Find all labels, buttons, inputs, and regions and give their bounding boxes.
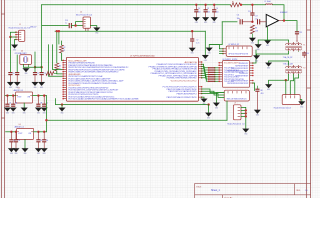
MCU left pin 5 (63, 68, 66, 70)
capacitor C7 on VBUS (190, 31, 199, 48)
wire to C16 (42, 24, 68, 27)
resistor RN6 (208, 78, 216, 80)
ground CA (10, 108, 17, 115)
capacitor C11 series (237, 15, 253, 25)
resistor RN4 (208, 74, 216, 76)
svg-text:PB3/PDO/MISO/PCINT3/PB3/PDO/MI: PB3/PDO/MISO/PCINT3/PB3/PDO/MISO/PCINT3/… (68, 72, 118, 74)
MCU left pin 9 (63, 77, 66, 79)
wire U4 in/out (6, 130, 17, 133)
wire res horiz (46, 71, 54, 75)
wire +5V top rail (42, 3, 231, 6)
capacitor C1 (33, 73, 39, 82)
svg-text:1.0: 1.0 (305, 190, 308, 192)
wire MCU to RN6 (202, 76, 209, 80)
junction VBUS (191, 30, 193, 32)
wire J5 to gnd b (216, 93, 224, 103)
junction gnd rail (207, 103, 209, 105)
capacitor C4 (194, 4, 200, 18)
ground col (59, 108, 66, 115)
U6 right pin 7 (250, 79, 253, 81)
svg-text:VCC33/VCC33/VCC: VCC33/VCC33/VCC (224, 63, 240, 65)
capacitor C2 (40, 73, 46, 82)
svg-text:PE2/HWB_PWR/PE2/HWB_PWR/PE2/: PE2/HWB_PWR/PE2/HWB_PWR/PE2/ (167, 78, 197, 80)
ground T2 bottom (265, 84, 272, 91)
svg-text:VCC/VCC/VCC/VCC/VCC/VCC/: VCC/VCC/VCC/VCC/VCC/VCC/ (171, 80, 197, 82)
MCU right pin 11 (198, 88, 201, 90)
wire RN3 to U6 (215, 71, 220, 74)
wire 5V distribution (46, 119, 227, 122)
ground U3 tab (21, 108, 28, 115)
wire U7 gnd leg (209, 45, 219, 49)
MCU right pin 7 (198, 74, 201, 76)
resistor R3 (55, 63, 59, 71)
wire MCU to RN3 (202, 69, 209, 73)
ground T2 left (265, 63, 272, 70)
wire audio gnd stub (208, 43, 211, 46)
ground at J1 (11, 45, 18, 52)
MCU right pin 8 (198, 77, 201, 79)
wire VBUS end down (204, 31, 207, 55)
ground CG (41, 148, 48, 155)
ground under C7 (189, 48, 196, 55)
junction rail R (240, 4, 242, 6)
wire RN7 to U6 (215, 80, 220, 83)
wire MCU to RN1 (202, 64, 209, 68)
wire xtal to pin a (35, 66, 42, 69)
MCU left pin 15 (63, 91, 66, 93)
resistor RN1 (208, 67, 216, 69)
capacitor CE at U4 (14, 131, 20, 149)
wire MCU to RN4 (202, 71, 209, 75)
regulator U4 (15, 124, 34, 139)
wire rail right of R (241, 3, 266, 6)
title block (195, 184, 311, 200)
capacitor C5 (204, 4, 210, 18)
wire U3 in/out (5, 94, 15, 97)
junction J1 (9, 36, 11, 38)
wire J4 shield to ground (91, 26, 97, 28)
ground opamp (264, 40, 271, 47)
U7 left pins (223, 48, 226, 50)
ground CC (41, 108, 48, 115)
capacitor C3 at U3 left (5, 94, 11, 106)
MCU left pin 1 (63, 59, 66, 61)
MCU left pin 3 (63, 64, 66, 66)
wire gnd rail stub (207, 105, 210, 113)
inductor L1 (266, 2, 273, 6)
crystal U2 (15, 51, 32, 65)
regulator U3 (14, 88, 33, 103)
capacitor C8 (8, 73, 14, 82)
MCU left pin 18 (63, 97, 66, 99)
U6 left pin 7 (219, 80, 222, 82)
resistor RN5 (208, 76, 216, 78)
capacitor C17 series (255, 16, 264, 25)
capacitor CA at U3 left (11, 94, 17, 106)
capacitor CB at U3 right (36, 94, 42, 106)
MCU right pin 5 (198, 70, 201, 72)
junction vin (45, 119, 47, 121)
svg-text:VCC/VCC/VCC: VCC/VCC/VCC (68, 85, 80, 87)
wire J1 pin4 to ground (15, 39, 16, 44)
MCU right pin 13 (198, 92, 201, 94)
svg-text:T1: T1 (303, 44, 305, 46)
junction D+ (56, 30, 58, 32)
wire rail drop to xtal (40, 5, 43, 72)
module U7 top box (226, 44, 252, 57)
svg-text:PE6/INT6/PE6/INT6/PE6/IN: PE6/INT6/PE6/INT6/PE6/IN (68, 63, 94, 65)
junction bias (251, 21, 253, 23)
U6 left pin 5 (219, 76, 222, 78)
op-amp U8 (263, 12, 287, 27)
U6 right pin 4 (250, 69, 253, 71)
svg-text:T2: T2 (303, 67, 305, 69)
MCU left pin 12 (63, 84, 66, 86)
ground under C4 (193, 17, 200, 24)
wire J4 upper pin (76, 22, 83, 26)
wire MCU pin to gnd a (202, 97, 204, 98)
svg-text:MCU_24F/MCU_24F/: MCU_24F/MCU_24F/ (68, 60, 86, 62)
MCU right pin 3 (198, 65, 201, 67)
MCU right pin 4 (198, 68, 201, 70)
sheet frame left border (1, 0, 4, 198)
ground under C1 (32, 82, 39, 89)
wire J4 D+ D- drop (85, 28, 87, 31)
wire MCU to RN7 (202, 78, 209, 82)
junction xtal b (40, 66, 42, 68)
ground T1 bottom (253, 55, 260, 62)
U6 right pin 1 (250, 62, 253, 64)
svg-text:RXP/RXP/RXP/RXP/RXP: RXP/RXP/RXP/RXP/RXP (227, 83, 249, 85)
resistor R7 bias (250, 25, 254, 34)
capacitor C9 (15, 55, 19, 82)
MCU left pin 8 (63, 75, 66, 77)
MCU left pin 6 (63, 70, 66, 72)
wire C16 to J4 (71, 24, 83, 27)
transformer T2 (285, 65, 305, 74)
wire GND rail mid (56, 99, 209, 105)
ground under C5 (202, 17, 209, 24)
capacitor CF at U4 (36, 131, 42, 149)
resistor R1 in rail (231, 3, 241, 7)
svg-text:RXP/RXP/: RXP/RXP/ (239, 73, 248, 75)
wire T1 topright (296, 40, 298, 42)
MCU left pin 14 (63, 88, 66, 90)
wire R2 top (60, 41, 63, 45)
ground CE (13, 148, 20, 155)
junction D- (58, 30, 60, 32)
wire J6 gnd (300, 100, 302, 102)
U6 right pin 3 (250, 67, 253, 69)
ground under C9 (14, 82, 21, 89)
wire RN4 to U6 (215, 73, 220, 76)
capacitor C6 (212, 4, 218, 18)
ground CB (35, 108, 42, 115)
ground J7 (242, 129, 249, 136)
svg-text:RXP/RXP/RXP/RXP/RXP: RXP/RXP/RXP/RXP/RXP (227, 70, 249, 72)
MCU left pin 13 (63, 86, 66, 88)
svg-text:TITLE:: TITLE: (196, 187, 202, 189)
resistor RN7 (208, 80, 216, 82)
connector J4 USB Micro (76, 12, 92, 29)
wire U4 tab (24, 139, 27, 148)
ground CD (8, 148, 15, 155)
wire xtal cap a (34, 52, 37, 72)
wire opamp minus gnd (266, 27, 269, 40)
U6 right pin 8 (250, 82, 253, 84)
wire U6 to top module (253, 50, 256, 63)
wire T1 topleft to gnd (258, 40, 288, 44)
wire RN1 to U6 (215, 66, 220, 69)
resistor RN3 (208, 71, 216, 73)
svg-text:RXP/RXP/RXP/RXP/: RXP/RXP/RXP/RXP/ (231, 68, 248, 70)
capacitor CD at U4 (9, 131, 15, 149)
MCU right pin 6 (198, 72, 201, 74)
wire R3 to pin (57, 71, 63, 74)
U6 right pin 5 (250, 72, 253, 74)
ground at J4 (93, 28, 100, 35)
wire T2 bottom left (269, 74, 289, 84)
connector J7 (227, 102, 244, 125)
ground J6 (298, 101, 305, 108)
svg-text:SWCLK SWDIO/SWCLK: SWCLK SWDIO/SWCLK (227, 98, 248, 100)
U6 left pin 6 (219, 78, 222, 80)
resistor R2 (59, 45, 63, 53)
junction opamp out (283, 19, 285, 21)
ground b (213, 103, 220, 110)
wire T1 bottom left (257, 51, 289, 55)
U6 right pin 6 (250, 74, 253, 76)
wire RN6 to U6 (215, 78, 220, 81)
wire MCU to RN5 (202, 73, 209, 77)
junction xtal a (34, 66, 36, 68)
MCU right pin 10 (198, 86, 201, 88)
svg-text:RXP/RXP/: RXP/RXP/ (239, 63, 248, 65)
junction T2 bottom (285, 79, 287, 81)
sheet frame right border (307, 0, 311, 198)
transformer T1 (285, 42, 305, 51)
ground at VBUS end (202, 55, 209, 62)
wire U6 low to bottom box (253, 83, 255, 91)
wire D+ drop (55, 31, 58, 63)
U6 left pin 4 (219, 73, 222, 75)
svg-text:Sheet_1: Sheet_1 (211, 189, 220, 192)
wire R7 gnd (251, 34, 253, 38)
svg-text:PB6/PCINT6/PB6/PCI: PB6/PCINT6/PB6/PCI (177, 93, 197, 95)
ground R7 (249, 38, 256, 45)
capacitor C14 (299, 51, 309, 57)
wire rail inductor to opamp column (273, 5, 285, 21)
wire opamp out (283, 21, 297, 32)
wire crystal pins (23, 64, 41, 67)
capacitor C12 bias (248, 4, 255, 22)
MCU right pin 1 (198, 61, 201, 63)
wire RN5 to U6 (215, 75, 220, 78)
MCU right pin 2 (198, 63, 201, 65)
MCU left pin 17 (63, 95, 66, 97)
wire R2 to pin (61, 53, 63, 60)
U6 left pin 3 (219, 71, 222, 73)
connector J1 header (9, 24, 31, 41)
ground U4 tab (22, 148, 29, 155)
wire RN2 to U6 (215, 69, 220, 72)
svg-text:PB2/PDI/MOSI/PCINT2/OC1B/PB2/P: PB2/PDI/MOSI/PCINT2/OC1B/PB2/PDI/MOSI/PC… (68, 69, 125, 71)
capacitor CC at U3 right (42, 94, 48, 106)
ground under C8 (7, 82, 14, 89)
svg-text:GND/GND/GND: GND/GND/GND (68, 74, 80, 76)
IC U6 (222, 59, 249, 87)
wire U3 vin drop (45, 96, 48, 132)
wire T2 to RJ pins (284, 80, 287, 94)
wire aux col 2 (52, 45, 63, 70)
svg-text:TXD1/TXD1: TXD1/TXD1 (224, 74, 235, 76)
svg-text:PC7/ICP3/CLK0/PC7/ICP3/CLK0/PC: PC7/ICP3/CLK0/PC7/ICP3/CLK0/PC7/ (163, 87, 197, 89)
wire MCU to RN2 (202, 67, 209, 71)
MCU right pin 12 (198, 90, 201, 92)
svg-text:RXP/RXP/RXP/: RXP/RXP/RXP/ (235, 75, 248, 77)
wire D- drop (57, 31, 60, 44)
ground under crystal (23, 68, 30, 75)
wire gnd rail hang (61, 103, 63, 105)
wire J1 net down (9, 37, 12, 72)
MCU left pin 4 (63, 66, 66, 68)
U6 left pin 2 (219, 69, 222, 71)
ground C3 (4, 108, 11, 115)
svg-text:RXP/RXP/RXP/RXP/: RXP/RXP/RXP/RXP/ (231, 80, 248, 82)
U6 left pin 1 (219, 67, 222, 69)
ground C15 (254, 110, 261, 117)
junction (74, 24, 76, 26)
svg-text:PD2/RXD1/INT2/RX/PD2/RXD1/INT2: PD2/RXD1/INT2/RX/PD2/RXD1/INT2/RX/PD2 (68, 87, 109, 89)
module J5 bottom box (224, 90, 249, 101)
svg-text:PD3/TXD1/INT3/TX_LED/PD3/TXD1/: PD3/TXD1/INT3/TX_LED/PD3/TXD1/INT3/TX_LE… (68, 90, 119, 92)
capacitor C13 to T1 (295, 32, 302, 41)
ground a (201, 99, 208, 106)
ground U7 (206, 48, 213, 55)
svg-text:RXP/RXP/RXP/: RXP/RXP/RXP/ (235, 65, 248, 67)
ground T1 left (255, 44, 262, 51)
MCU U5 ATMEGA32U4 (66, 54, 198, 101)
MCU left pin 7 (63, 73, 66, 75)
capacitor CG at U4 (42, 131, 49, 149)
J5 left pins wires from MCU (202, 89, 225, 93)
ground rail (205, 113, 212, 120)
MCU left pin 10 (63, 79, 66, 81)
ground CF (35, 148, 42, 155)
MCU left pin 2 (63, 61, 66, 63)
U6 left pin a (219, 62, 222, 64)
U6 right pin 2 (250, 64, 253, 66)
connector J6 RJ (274, 95, 300, 110)
wire aux col 1 (49, 45, 64, 76)
MCU right pin 14 (198, 96, 201, 98)
wire VBUS across (55, 30, 205, 33)
svg-text:REV:: REV: (296, 190, 301, 192)
MCU left pin 16 (63, 93, 66, 95)
ground under C6 (211, 17, 218, 24)
svg-text:PD5/XCK1/CTS/PD5/XCK1/CTS/PD: PD5/XCK1/CTS/PD5/XCK1/CTS/PD (68, 94, 98, 96)
MCU left pin 11 (63, 82, 66, 84)
wire J1 pins bus (10, 32, 16, 37)
capacitor C16 (65, 20, 71, 28)
wire audio corner (222, 20, 237, 23)
capacitor C15 column (255, 86, 263, 110)
U6 left pin b (219, 64, 222, 66)
wires J7 to gnd (241, 107, 246, 128)
resistor RN2 (208, 69, 216, 71)
wire T2 topleft to gnd (269, 61, 289, 65)
svg-text:GPIO0 RXD/GPIO0 RX: GPIO0 RXD/GPIO0 RX (228, 54, 249, 56)
wire J5 bottom to rail (226, 101, 229, 120)
ground under C2 (38, 82, 45, 89)
wire U3 tab (23, 103, 26, 108)
